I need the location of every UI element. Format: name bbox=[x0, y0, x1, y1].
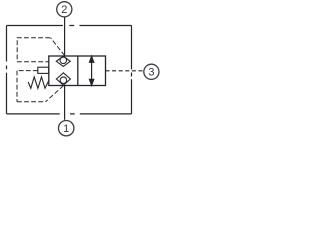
svg-text:3: 3 bbox=[148, 67, 154, 79]
svg-text:1: 1 bbox=[63, 123, 69, 135]
svg-text:2: 2 bbox=[61, 4, 67, 16]
